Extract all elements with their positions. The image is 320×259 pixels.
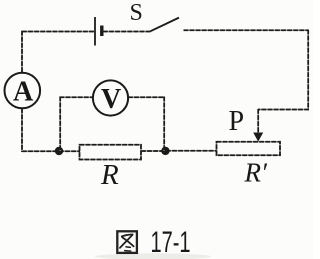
voltmeter V: [93, 80, 128, 115]
ammeter A: [5, 73, 41, 109]
svg-text:P: P: [229, 106, 245, 137]
scan smudge under caption: [95, 253, 211, 259]
svg-text:17-1: 17-1: [151, 226, 191, 259]
wire step horizontal: [258, 109, 309, 111]
svg-text:S: S: [130, 0, 143, 26]
junction dot right: [161, 147, 169, 155]
wire left vertical upper (corner to ammeter): [21, 31, 23, 73]
wire bottom: left junction to resistor R: [59, 150, 80, 152]
caption glyph tu (drawn CJK): [117, 231, 137, 253]
svg-text:V: V: [101, 84, 121, 115]
wire voltmeter branch left horizontal: [60, 96, 94, 98]
wiper arrowhead: [253, 133, 263, 142]
wire battery to switch contact: [103, 31, 151, 33]
wire bottom: right junction to resistor R: [141, 150, 165, 152]
svg-text:A: A: [13, 77, 34, 108]
wire right vertical: [307, 30, 309, 110]
wire voltmeter branch right horizontal: [128, 96, 165, 98]
wire bottom: rheostat to right junction: [166, 150, 217, 152]
wire wiper drop vertical: [257, 109, 259, 134]
battery cell: long plate: [94, 17, 96, 46]
wire bottom-left horizontal: [22, 150, 60, 152]
wire voltmeter branch left vertical: [59, 97, 61, 152]
wire left vertical lower (ammeter to bottom corner): [21, 108, 23, 152]
switch S blade: [151, 18, 180, 32]
battery cell: short thick plate: [100, 26, 103, 37]
svg-text:R′: R′: [244, 157, 268, 187]
wire switch to top-right corner: [184, 29, 309, 31]
junction dot left: [55, 147, 63, 155]
rheostat R' body: [217, 142, 281, 155]
wire voltmeter branch right vertical: [163, 97, 165, 152]
svg-text:R: R: [100, 159, 119, 191]
resistor R body: [80, 145, 142, 160]
wire top-left horizontal (corner to battery): [22, 31, 94, 33]
